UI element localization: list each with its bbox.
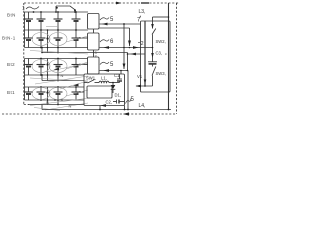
battery pack left rail group B xyxy=(24,59,26,101)
arrow on bottom dashed line xyxy=(123,112,129,115)
row labels xyxy=(2,13,16,96)
arrowhead on faint diagonal row3 xyxy=(54,68,60,71)
bus row3 top xyxy=(25,58,89,60)
thick inner wire xyxy=(144,21,146,86)
battery cell row4 (Bt1) #3 xyxy=(54,87,63,100)
L1 inductor xyxy=(99,81,109,82)
mid tap vertical row2 xyxy=(47,30,49,53)
SW1 switch xyxy=(84,82,88,84)
long right wire xyxy=(168,3,170,110)
converter box xyxy=(84,74,125,106)
D1 diode xyxy=(112,83,114,86)
battery cell row3 (Bt2) #4 xyxy=(72,59,81,76)
arrow on converter bottom edge xyxy=(101,104,107,107)
svg-text:SW2,: SW2, xyxy=(156,39,166,44)
V1 arrow on inner wire xyxy=(144,80,147,85)
stubs bus y100 to wire y104.5 xyxy=(57,100,59,105)
dashed corner at bottom-left of battery box xyxy=(24,104,29,106)
mid tap vertical row4 xyxy=(47,87,49,105)
svg-text:Bt1: Bt1 xyxy=(7,90,15,95)
label 1 with wavy leader xyxy=(22,6,25,12)
wavy leader 5 bottom xyxy=(126,99,132,104)
svg-text:1: 1 xyxy=(22,6,25,12)
tap wire between groups xyxy=(42,52,100,54)
outer dashed boundary left xyxy=(23,3,25,105)
labels SW1 L1 C1 xyxy=(86,73,121,81)
label 2 xyxy=(141,41,144,47)
row right stubs to boxes xyxy=(80,37,88,39)
entry wire at top right xyxy=(153,16,169,18)
svg-text:L4,: L4, xyxy=(139,103,146,109)
svg-text:SW3,: SW3, xyxy=(156,71,166,76)
battery cell row1 (BtN) #3 xyxy=(54,12,63,30)
top taps xyxy=(55,6,57,12)
svg-text:2: 2 xyxy=(141,41,144,47)
battery pack left rail group A xyxy=(24,12,26,48)
monitor box 3 xyxy=(88,57,100,74)
svg-text:N: N xyxy=(46,100,49,105)
svg-text:BtN: BtN xyxy=(7,13,16,18)
mid tap vertical row3 xyxy=(47,59,49,81)
L4 label xyxy=(139,103,146,109)
arrowhead on faint diagonal row4 xyxy=(73,84,79,87)
inner control box xyxy=(87,86,112,98)
battery cell row3 (Bt2) #1 xyxy=(24,59,33,76)
outer dashed boundary top xyxy=(24,2,179,4)
stub to bottom wire xyxy=(41,105,43,110)
bus row4 top xyxy=(25,86,85,88)
battery cell row2 (BtN-1) #2 xyxy=(37,30,46,48)
C3 capacitor xyxy=(156,51,163,56)
bus row3 bottom xyxy=(25,74,85,76)
SW3 switch xyxy=(152,67,156,76)
svg-text:BtN-1: BtN-1 xyxy=(2,36,16,41)
C2 capacitor xyxy=(106,100,113,105)
outer dashed boundary bottom xyxy=(2,113,177,115)
tap wire rows3-4 xyxy=(42,80,84,82)
V1 label xyxy=(137,74,143,79)
battery cell row4 (Bt1) #4 xyxy=(72,87,81,100)
bottom internal wires xyxy=(136,85,153,87)
bus shared rows1-2 xyxy=(25,29,89,31)
arrow on top dashed line xyxy=(116,2,121,5)
middle interconnect wires xyxy=(100,23,141,25)
svg-text:V1: V1 xyxy=(137,74,143,79)
monitor box 1 xyxy=(88,14,100,30)
battery cell row2 (BtN-1) #4 xyxy=(72,30,81,48)
cont xyxy=(127,53,129,71)
chain wires between boxes xyxy=(93,29,95,33)
svg-text:C3,: C3, xyxy=(156,51,163,56)
faint construction curves xyxy=(30,27,90,111)
arrow into C3 xyxy=(151,53,154,58)
battery cell row1 (BtN) #2 xyxy=(37,12,46,30)
SW2 branch xyxy=(152,17,154,29)
wavy leaders with numerals 5/6/5 xyxy=(100,18,109,21)
battery cell row1 (BtN) #1 xyxy=(24,12,33,30)
svg-text:Bt2: Bt2 xyxy=(7,62,15,67)
battery cell row1 (BtN) #4 xyxy=(72,12,81,30)
monitor box 2 xyxy=(88,33,100,50)
right box xyxy=(141,21,171,92)
bottom wires xyxy=(28,104,84,106)
battery cell row3 (Bt2) #3 xyxy=(54,59,63,76)
junction dots on buses xyxy=(33,11,81,105)
bus row4 bottom xyxy=(25,99,85,101)
battery cell row2 (BtN-1) #1 xyxy=(24,30,33,48)
svg-text:C2,: C2, xyxy=(106,100,113,105)
bus row2 bottom xyxy=(25,47,89,49)
svg-text:SW1,: SW1, xyxy=(86,76,96,81)
wire y54 out of box with left arrow xyxy=(128,53,146,55)
svg-text:L3,: L3, xyxy=(139,9,146,15)
wire from monitor box1 to node at x129.5 xyxy=(100,27,130,29)
battery cell row3 (Bt2) #2 xyxy=(37,59,46,76)
svg-text:N: N xyxy=(61,73,64,78)
battery cell row2 (BtN-1) #3 xyxy=(54,30,63,48)
svg-text:D1,: D1, xyxy=(115,93,122,98)
svg-text:L1,: L1, xyxy=(101,76,107,81)
bus row1 top xyxy=(25,11,89,13)
C1 capacitor xyxy=(119,74,121,79)
svg-text:3: 3 xyxy=(95,55,97,59)
svg-text:N: N xyxy=(69,104,72,109)
tiny N labels xyxy=(46,73,72,109)
wire y47.5 into box with right arrow xyxy=(130,47,153,49)
label 7 xyxy=(137,18,141,24)
svg-text:c: c xyxy=(165,52,167,56)
outer dashed boundary right xyxy=(176,3,178,114)
battery cell row4 (Bt1) #2 xyxy=(37,87,46,100)
L3 label xyxy=(139,9,146,15)
battery cell row4 (Bt1) #1 xyxy=(24,87,33,100)
